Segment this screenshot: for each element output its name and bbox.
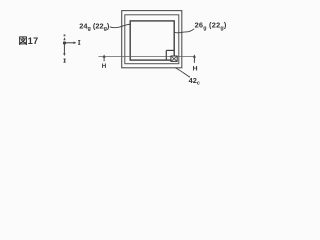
via square 42c [171, 56, 177, 61]
middle square (layer outline) [125, 15, 179, 64]
axis symbol: origin dot [63, 41, 66, 44]
leader line for 26g [174, 29, 194, 33]
section line H-H [99, 56, 195, 58]
axis symbol: small dot above origin [64, 35, 66, 37]
axis arrow down [63, 45, 65, 54]
section arrow left [103, 54, 106, 61]
svg-text:図17: 図17 [19, 36, 39, 46]
leader line for 24g [110, 24, 131, 27]
svg-text:H: H [193, 66, 198, 73]
leader line for 42c [176, 68, 190, 77]
electrode 22g outline [130, 21, 174, 60]
axis label right (I) [79, 40, 80, 45]
axis symbol: up tick above origin [63, 37, 65, 40]
axis arrow right [66, 42, 74, 44]
section arrow right [193, 54, 196, 62]
outer square (component outline) [122, 11, 182, 68]
axis label bottom (I) [64, 59, 65, 63]
electrode notch horizontal line [166, 49, 174, 51]
svg-text:H: H [102, 63, 107, 70]
electrode notch vertical line [165, 50, 167, 60]
